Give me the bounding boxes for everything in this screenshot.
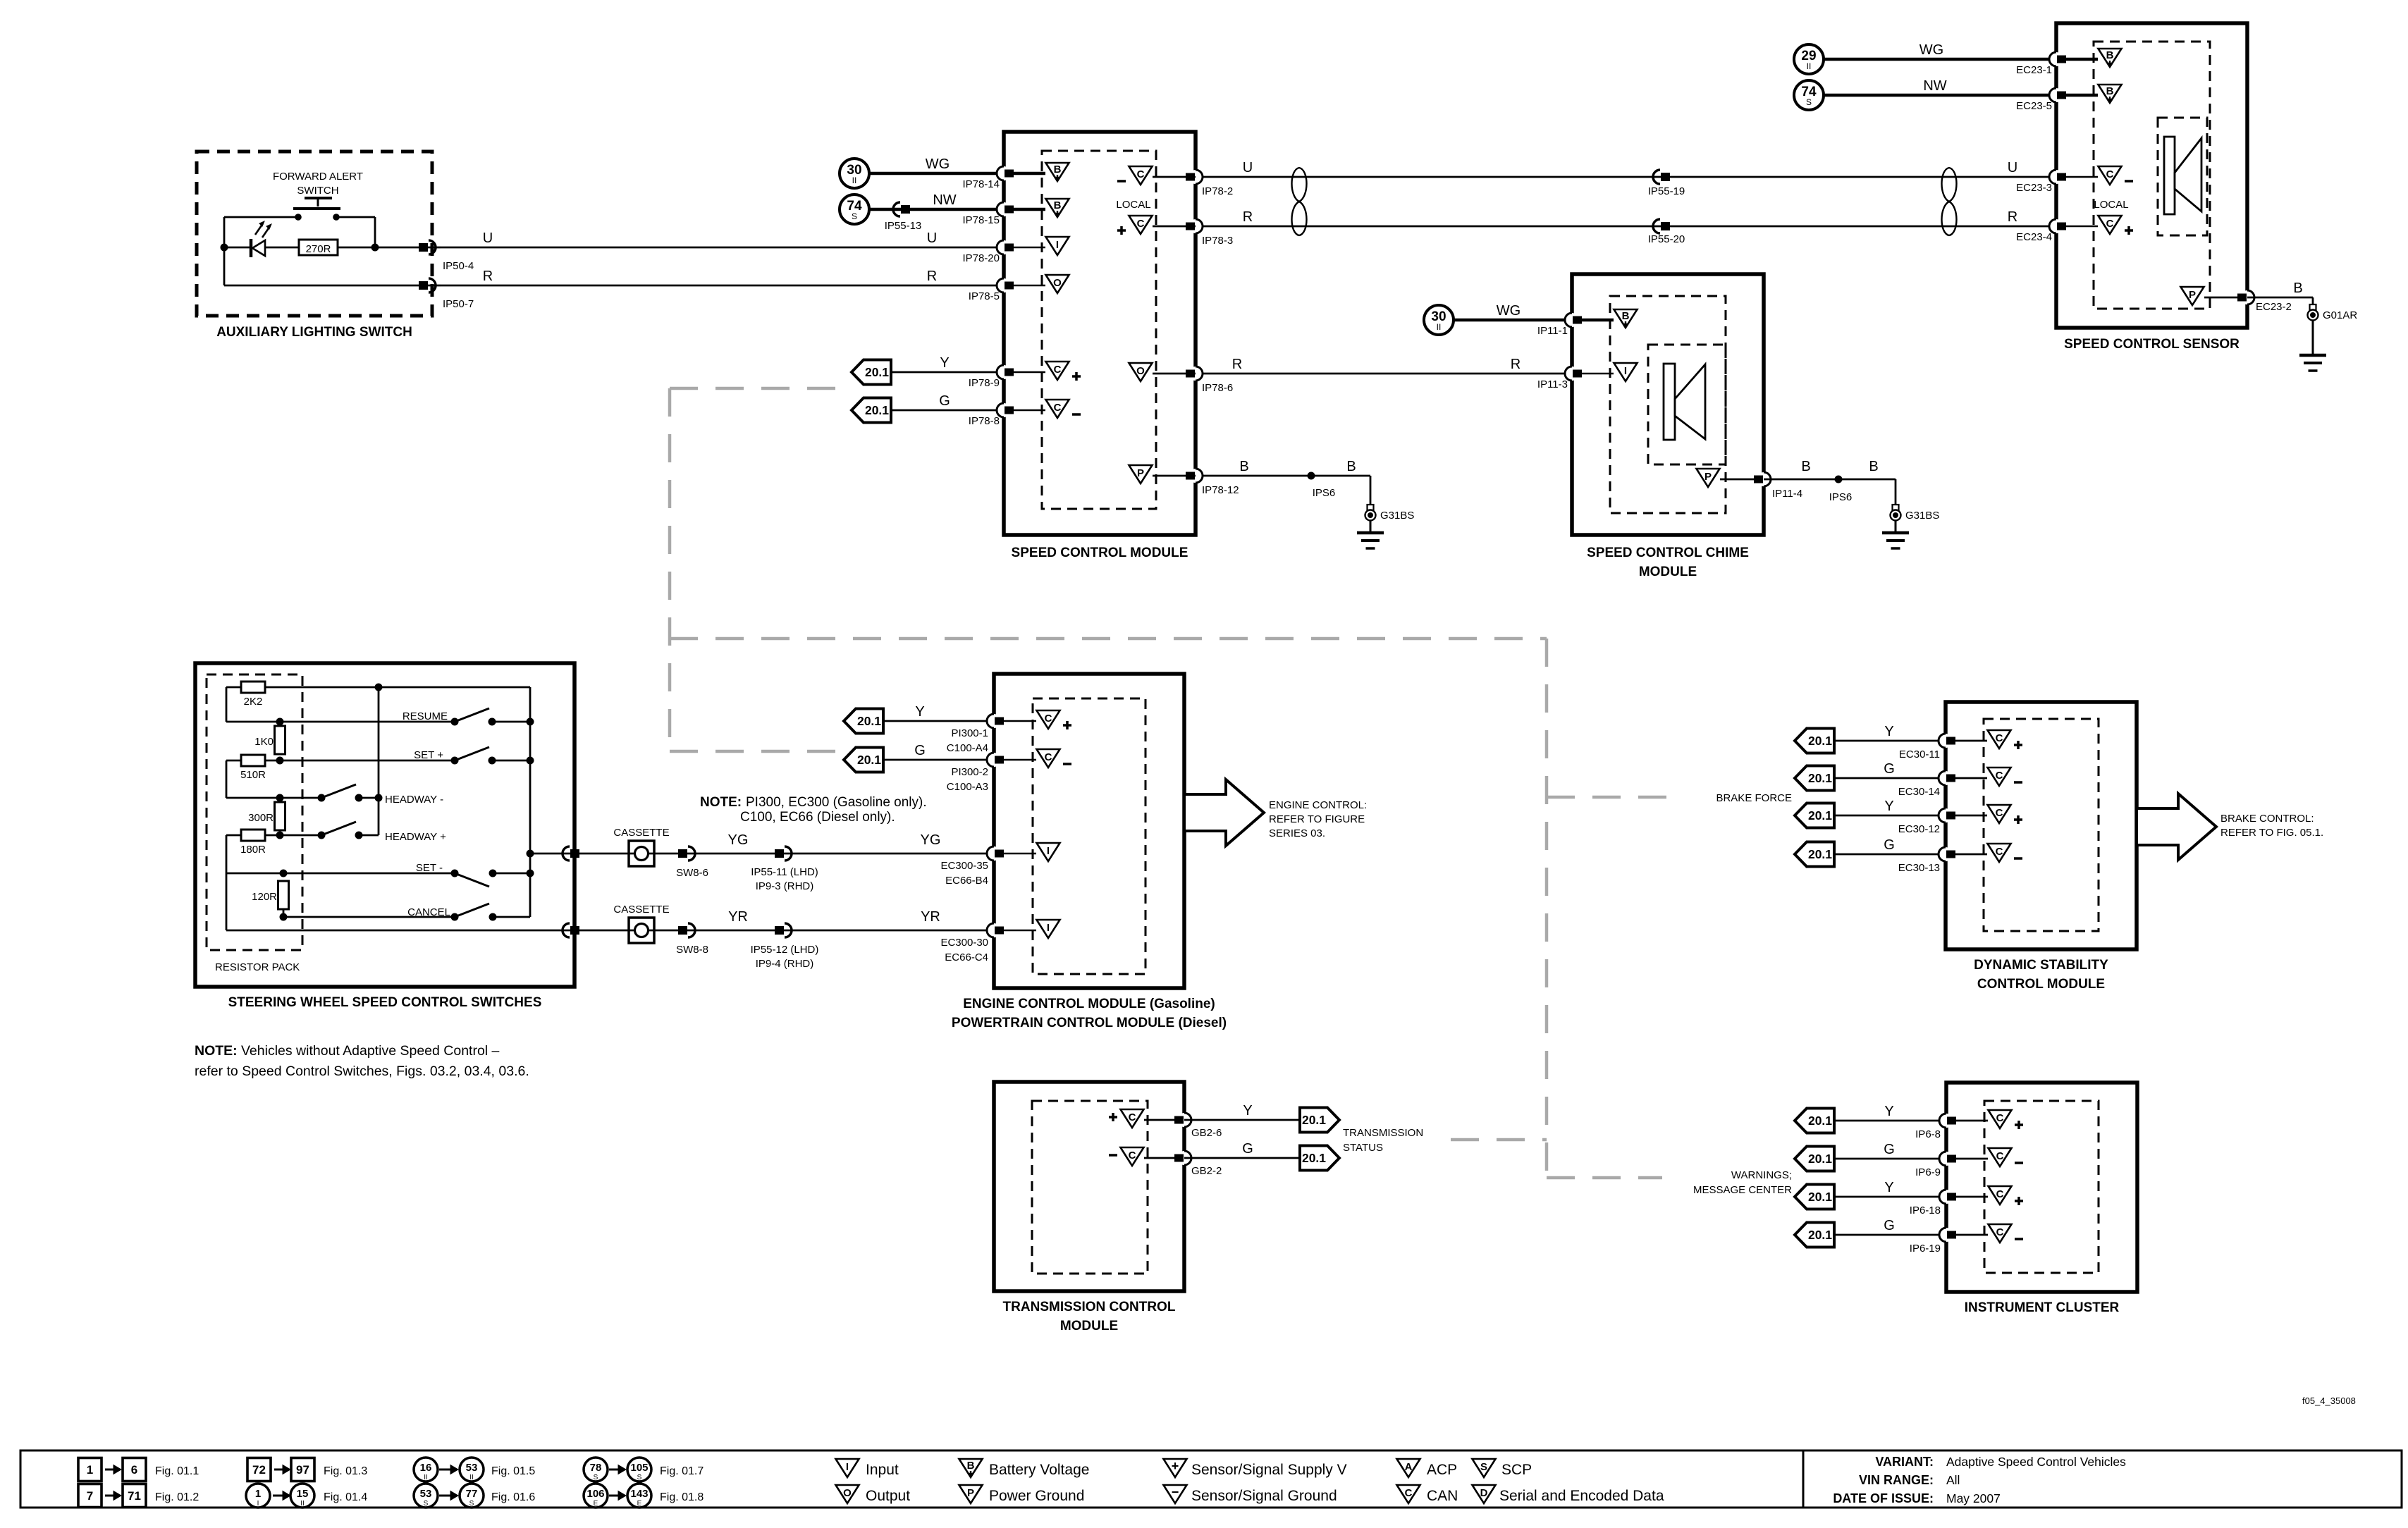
svg-text:C: C <box>2106 168 2114 180</box>
svg-text:78: 78 <box>590 1462 602 1474</box>
svg-text:NW: NW <box>1923 78 1946 94</box>
svg-text:I: I <box>1624 365 1627 377</box>
svg-text:1: 1 <box>255 1488 261 1500</box>
svg-text:IP55-13: IP55-13 <box>885 220 922 232</box>
svg-text:refer to Speed Control Switche: refer to Speed Control Switches, Figs. 0… <box>195 1064 529 1079</box>
svg-text:Y: Y <box>1884 724 1893 739</box>
svg-text:I: I <box>846 1461 849 1473</box>
svg-text:G: G <box>1884 1218 1895 1233</box>
svg-text:EC300-35: EC300-35 <box>940 860 988 872</box>
svg-text:EC23-2: EC23-2 <box>2256 301 2292 313</box>
svg-text:C100, EC66 (Diesel only).: C100, EC66 (Diesel only). <box>740 810 895 825</box>
svg-text:VIN RANGE:: VIN RANGE: <box>1859 1473 1934 1487</box>
svg-text:SCP: SCP <box>1501 1462 1532 1478</box>
svg-text:C: C <box>1996 1188 2004 1200</box>
svg-text:HEADWAY +: HEADWAY + <box>385 831 446 843</box>
svg-text:SET -: SET - <box>416 862 443 874</box>
svg-text:C: C <box>1137 218 1145 230</box>
svg-text:S: S <box>424 1500 429 1508</box>
svg-text:G: G <box>1242 1141 1253 1157</box>
svg-text:RESUME: RESUME <box>403 710 448 722</box>
svg-text:EC66-B4: EC66-B4 <box>945 875 988 887</box>
svg-text:G31BS: G31BS <box>1380 510 1414 522</box>
svg-text:IP6-9: IP6-9 <box>1915 1166 1941 1178</box>
svg-text:53: 53 <box>420 1488 432 1500</box>
svg-text:SW8-8: SW8-8 <box>676 944 708 956</box>
svg-text:May 2007: May 2007 <box>1946 1491 2001 1505</box>
svg-text:C: C <box>1137 168 1145 180</box>
svg-text:POWERTRAIN CONTROL MODULE (Die: POWERTRAIN CONTROL MODULE (Diesel) <box>952 1016 1227 1030</box>
svg-text:YR: YR <box>921 909 940 925</box>
svg-text:Input: Input <box>866 1462 899 1478</box>
svg-text:S: S <box>852 211 857 221</box>
svg-text:SW8-6: SW8-6 <box>676 867 708 879</box>
svg-text:Sensor/Signal Ground: Sensor/Signal Ground <box>1191 1488 1337 1504</box>
svg-text:20.1: 20.1 <box>857 753 881 767</box>
svg-text:O: O <box>1053 277 1062 289</box>
svg-text:IP78-5: IP78-5 <box>969 290 1000 302</box>
svg-text:IP50-4: IP50-4 <box>443 260 474 272</box>
svg-text:P: P <box>1137 467 1144 479</box>
svg-text:R: R <box>1511 357 1521 372</box>
svg-text:EC23-4: EC23-4 <box>2016 231 2052 243</box>
svg-text:20.1: 20.1 <box>1808 1190 1832 1204</box>
svg-text:2K2: 2K2 <box>244 696 263 708</box>
svg-text:LOCAL: LOCAL <box>2094 199 2128 211</box>
svg-text:R: R <box>1243 209 1253 225</box>
svg-text:IP6-8: IP6-8 <box>1915 1128 1941 1140</box>
svg-text:U: U <box>2008 160 2017 175</box>
svg-text:B: B <box>1054 164 1062 175</box>
svg-text:MODULE: MODULE <box>1639 565 1697 579</box>
svg-text:P: P <box>1704 471 1712 483</box>
svg-text:C: C <box>1996 1226 2004 1238</box>
svg-text:ENGINE CONTROL MODULE (Gasolin: ENGINE CONTROL MODULE (Gasoline) <box>963 997 1215 1011</box>
svg-text:B: B <box>967 1460 975 1472</box>
svg-text:120R: 120R <box>252 891 277 903</box>
svg-text:Y: Y <box>1243 1103 1252 1119</box>
svg-text:IPS6: IPS6 <box>1829 491 1853 503</box>
svg-text:B: B <box>1869 459 1878 474</box>
svg-text:EC23-5: EC23-5 <box>2016 100 2052 112</box>
svg-text:IP11-4: IP11-4 <box>1772 488 1802 500</box>
svg-text:IP55-19: IP55-19 <box>1648 185 1685 197</box>
svg-text:105: 105 <box>630 1462 648 1474</box>
svg-text:SPEED CONTROL CHIME: SPEED CONTROL CHIME <box>1587 546 1749 560</box>
svg-text:IP78-8: IP78-8 <box>969 415 1000 427</box>
svg-text:IP78-6: IP78-6 <box>1202 382 1233 394</box>
svg-text:IP11-3: IP11-3 <box>1537 378 1568 390</box>
svg-text:Y: Y <box>915 704 924 720</box>
svg-text:REFER TO FIG. 05.1.: REFER TO FIG. 05.1. <box>2220 827 2323 839</box>
svg-text:Y: Y <box>1884 799 1893 814</box>
svg-text:97: 97 <box>296 1463 309 1477</box>
svg-text:Sensor/Signal Supply V: Sensor/Signal Supply V <box>1191 1462 1347 1478</box>
svg-text:B: B <box>2106 85 2114 97</box>
svg-text:U: U <box>483 230 493 246</box>
svg-text:SET +: SET + <box>414 749 443 761</box>
svg-text:7: 7 <box>87 1489 93 1503</box>
svg-text:O: O <box>843 1487 852 1499</box>
svg-text:WG: WG <box>1497 303 1521 319</box>
svg-text:Fig. 01.7: Fig. 01.7 <box>660 1465 704 1477</box>
svg-text:U: U <box>1243 160 1253 175</box>
svg-text:STATUS: STATUS <box>1343 1142 1383 1154</box>
svg-text:U: U <box>927 230 937 246</box>
svg-text:C: C <box>1996 846 2003 858</box>
svg-text:S: S <box>1480 1461 1487 1473</box>
svg-text:IP55-20: IP55-20 <box>1648 233 1685 245</box>
svg-text:G: G <box>914 743 926 758</box>
svg-text:WG: WG <box>1919 42 1943 58</box>
svg-text:C: C <box>1129 1150 1136 1162</box>
svg-text:EC23-1: EC23-1 <box>2016 64 2052 76</box>
svg-text:C: C <box>1045 751 1052 763</box>
svg-text:20.1: 20.1 <box>865 403 889 417</box>
svg-text:VARIANT:: VARIANT: <box>1875 1455 1934 1469</box>
svg-text:C: C <box>1054 402 1062 414</box>
svg-text:G01AR: G01AR <box>2323 309 2357 321</box>
svg-text:SERIES 03.: SERIES 03. <box>1269 827 1325 839</box>
svg-text:C: C <box>1054 364 1062 376</box>
svg-text:Fig. 01.1: Fig. 01.1 <box>155 1465 199 1477</box>
svg-text:P: P <box>967 1487 974 1499</box>
svg-text:Fig. 01.5: Fig. 01.5 <box>491 1465 535 1477</box>
svg-text:P: P <box>2189 289 2196 301</box>
svg-text:20.1: 20.1 <box>1808 771 1832 785</box>
svg-text:NW: NW <box>933 192 956 208</box>
svg-text:EC300-30: EC300-30 <box>940 937 988 949</box>
svg-text:E: E <box>637 1500 642 1508</box>
svg-text:C: C <box>1996 1150 2004 1162</box>
svg-text:IP78-3: IP78-3 <box>1202 235 1233 247</box>
svg-text:1: 1 <box>87 1463 93 1477</box>
svg-text:WARNINGS;: WARNINGS; <box>1731 1169 1792 1181</box>
svg-text:CANCEL: CANCEL <box>407 906 450 918</box>
svg-text:NOTE:: NOTE: <box>195 1043 238 1059</box>
svg-text:IP11-1: IP11-1 <box>1537 325 1568 337</box>
svg-text:Y: Y <box>1884 1104 1893 1119</box>
svg-text:Output: Output <box>866 1488 910 1504</box>
svg-text:20.1: 20.1 <box>1302 1113 1326 1127</box>
svg-text:SPEED CONTROL MODULE: SPEED CONTROL MODULE <box>1012 546 1188 560</box>
svg-text:YR: YR <box>728 909 748 925</box>
svg-text:Adaptive Speed Control Vehicle: Adaptive Speed Control Vehicles <box>1946 1455 2126 1469</box>
svg-text:B: B <box>1239 459 1248 474</box>
svg-text:PI300-1: PI300-1 <box>951 727 988 739</box>
svg-text:A: A <box>1405 1461 1413 1473</box>
svg-text:IP9-4 (RHD): IP9-4 (RHD) <box>756 958 814 970</box>
svg-text:G31BS: G31BS <box>1905 510 1939 522</box>
svg-text:II: II <box>852 175 857 185</box>
svg-text:EC30-13: EC30-13 <box>1898 862 1940 874</box>
svg-text:G: G <box>939 393 950 409</box>
svg-text:MESSAGE CENTER: MESSAGE CENTER <box>1693 1184 1792 1196</box>
svg-text:STEERING WHEEL SPEED CONTROL S: STEERING WHEEL SPEED CONTROL SWITCHES <box>228 995 542 1010</box>
svg-text:B: B <box>1054 199 1062 211</box>
svg-text:E: E <box>594 1500 598 1508</box>
svg-text:B: B <box>2293 281 2302 296</box>
svg-text:143: 143 <box>630 1488 648 1500</box>
svg-text:PI300-2: PI300-2 <box>951 766 988 778</box>
svg-text:IP78-14: IP78-14 <box>962 178 1000 190</box>
svg-text:IP55-11 (LHD): IP55-11 (LHD) <box>751 866 818 878</box>
svg-text:106: 106 <box>586 1488 604 1500</box>
svg-text:MODULE: MODULE <box>1060 1319 1118 1333</box>
svg-text:IP78-20: IP78-20 <box>962 252 1000 264</box>
svg-text:−: − <box>1172 1485 1179 1499</box>
svg-text:REFER TO FIGURE: REFER TO FIGURE <box>1269 813 1365 825</box>
svg-text:DYNAMIC STABILITY: DYNAMIC STABILITY <box>1974 958 2108 973</box>
svg-text:IPS6: IPS6 <box>1313 487 1336 499</box>
svg-text:Power Ground: Power Ground <box>989 1488 1084 1504</box>
svg-text:Vehicles without Adaptive Spee: Vehicles without Adaptive Speed Control … <box>241 1043 500 1059</box>
svg-text:Y: Y <box>1884 1180 1893 1195</box>
svg-text:ENGINE CONTROL:: ENGINE CONTROL: <box>1269 799 1367 811</box>
svg-text:PI300, EC300 (Gasoline only).: PI300, EC300 (Gasoline only). <box>746 795 927 810</box>
svg-text:S: S <box>637 1474 642 1481</box>
svg-text:C: C <box>2106 218 2114 230</box>
svg-text:IP55-12 (LHD): IP55-12 (LHD) <box>751 944 819 956</box>
svg-text:IP78-15: IP78-15 <box>962 214 1000 226</box>
svg-text:EC23-3: EC23-3 <box>2016 182 2052 194</box>
svg-text:SPEED CONTROL SENSOR: SPEED CONTROL SENSOR <box>2064 337 2240 352</box>
svg-text:IP9-3 (RHD): IP9-3 (RHD) <box>756 880 814 892</box>
svg-text:72: 72 <box>252 1463 266 1477</box>
svg-text:C: C <box>1996 1112 2004 1124</box>
svg-text:IP78-2: IP78-2 <box>1202 185 1233 197</box>
svg-text:C: C <box>1996 770 2003 782</box>
svg-text:AUXILIARY LIGHTING SWITCH: AUXILIARY LIGHTING SWITCH <box>216 325 412 340</box>
svg-text:O: O <box>1136 365 1145 377</box>
svg-text:II: II <box>300 1500 305 1508</box>
svg-text:71: 71 <box>128 1489 141 1503</box>
svg-text:BRAKE FORCE: BRAKE FORCE <box>1716 792 1792 804</box>
svg-text:TRANSMISSION: TRANSMISSION <box>1343 1127 1423 1139</box>
svg-text:HEADWAY -: HEADWAY - <box>385 794 443 806</box>
svg-text:16: 16 <box>420 1462 432 1474</box>
svg-text:77: 77 <box>466 1488 478 1500</box>
svg-text:1K0: 1K0 <box>254 736 274 748</box>
svg-text:YG: YG <box>728 832 749 848</box>
svg-text:EC30-14: EC30-14 <box>1898 786 1940 798</box>
svg-text:S: S <box>1806 97 1812 107</box>
svg-text:53: 53 <box>466 1462 478 1474</box>
svg-text:CAN: CAN <box>1427 1488 1458 1504</box>
svg-text:II: II <box>1437 322 1442 332</box>
svg-text:R: R <box>2008 209 2017 225</box>
svg-text:TRANSMISSION CONTROL: TRANSMISSION CONTROL <box>1003 1300 1176 1314</box>
svg-text:II: II <box>424 1474 428 1481</box>
svg-text:FORWARD ALERT: FORWARD ALERT <box>273 171 363 183</box>
svg-text:ACP: ACP <box>1427 1462 1457 1478</box>
svg-text:DATE OF ISSUE:: DATE OF ISSUE: <box>1833 1491 1934 1505</box>
svg-text:Battery Voltage: Battery Voltage <box>989 1462 1089 1478</box>
svg-text:All: All <box>1946 1473 1960 1487</box>
svg-text:S: S <box>594 1474 598 1481</box>
svg-text:20.1: 20.1 <box>1808 847 1832 861</box>
svg-text:C: C <box>1996 732 2003 744</box>
svg-text:IP50-7: IP50-7 <box>443 298 474 310</box>
svg-text:20.1: 20.1 <box>857 714 881 728</box>
svg-text:Fig. 01.2: Fig. 01.2 <box>155 1491 199 1503</box>
svg-text:GB2-6: GB2-6 <box>1191 1127 1222 1139</box>
svg-text:C: C <box>1045 713 1052 725</box>
svg-text:+: + <box>1172 1459 1179 1473</box>
svg-text:6: 6 <box>131 1463 137 1477</box>
svg-text:I: I <box>1047 922 1050 934</box>
svg-text:I: I <box>1047 845 1050 857</box>
svg-text:D: D <box>1480 1487 1488 1499</box>
svg-text:20.1: 20.1 <box>1808 1114 1832 1128</box>
svg-text:EC30-12: EC30-12 <box>1898 823 1940 835</box>
svg-text:SWITCH: SWITCH <box>297 185 338 197</box>
svg-text:B: B <box>1622 310 1630 322</box>
svg-text:G: G <box>1884 1142 1895 1157</box>
svg-text:EC66-C4: EC66-C4 <box>945 951 988 963</box>
svg-text:180R: 180R <box>240 844 266 856</box>
svg-text:B: B <box>1346 459 1356 474</box>
svg-text:G: G <box>1884 837 1895 853</box>
svg-text:INSTRUMENT CLUSTER: INSTRUMENT CLUSTER <box>1965 1300 2120 1315</box>
svg-text:C: C <box>1129 1111 1136 1123</box>
svg-text:CASSETTE: CASSETTE <box>613 827 669 839</box>
svg-text:20.1: 20.1 <box>1808 1228 1832 1242</box>
svg-text:Y: Y <box>940 355 949 371</box>
svg-text:f05_4_35008: f05_4_35008 <box>2302 1395 2356 1406</box>
svg-text:YG: YG <box>921 832 941 848</box>
svg-text:WG: WG <box>926 156 950 172</box>
svg-text:LOCAL: LOCAL <box>1116 199 1150 211</box>
svg-text:G: G <box>1884 761 1895 777</box>
svg-text:GB2-2: GB2-2 <box>1191 1165 1222 1177</box>
svg-text:IP78-12: IP78-12 <box>1202 484 1239 496</box>
svg-text:II: II <box>469 1474 474 1481</box>
svg-text:20.1: 20.1 <box>1808 1152 1832 1166</box>
svg-text:300R: 300R <box>248 812 274 824</box>
svg-text:510R: 510R <box>240 769 266 781</box>
svg-text:R: R <box>927 269 937 284</box>
svg-text:R: R <box>483 269 493 284</box>
svg-text:B: B <box>2106 49 2114 61</box>
svg-text:Fig. 01.4: Fig. 01.4 <box>324 1491 367 1503</box>
svg-text:II: II <box>1807 61 1812 71</box>
svg-text:NOTE:: NOTE: <box>700 795 742 810</box>
svg-text:CASSETTE: CASSETTE <box>613 904 669 916</box>
svg-text:20.1: 20.1 <box>1808 808 1832 822</box>
svg-text:20.1: 20.1 <box>1808 734 1832 748</box>
svg-text:C100-A4: C100-A4 <box>947 742 988 754</box>
svg-text:270R: 270R <box>306 243 331 255</box>
svg-text:EC30-11: EC30-11 <box>1899 748 1940 760</box>
svg-text:15: 15 <box>297 1488 309 1500</box>
svg-text:IP78-9: IP78-9 <box>969 377 1000 389</box>
svg-text:S: S <box>469 1500 474 1508</box>
svg-text:20.1: 20.1 <box>1302 1151 1326 1165</box>
svg-text:CONTROL MODULE: CONTROL MODULE <box>1977 977 2105 992</box>
svg-text:RESISTOR PACK: RESISTOR PACK <box>215 961 300 973</box>
svg-text:BRAKE CONTROL:: BRAKE CONTROL: <box>2220 813 2314 825</box>
svg-text:IP6-18: IP6-18 <box>1910 1204 1941 1216</box>
svg-text:R: R <box>1232 357 1242 372</box>
svg-text:B: B <box>1801 459 1810 474</box>
svg-text:Fig. 01.6: Fig. 01.6 <box>491 1491 535 1503</box>
svg-text:Fig. 01.3: Fig. 01.3 <box>324 1465 367 1477</box>
svg-text:I: I <box>257 1500 259 1508</box>
svg-text:IP6-19: IP6-19 <box>1910 1243 1941 1255</box>
svg-text:C: C <box>1405 1487 1413 1499</box>
svg-text:Serial and Encoded Data: Serial and Encoded Data <box>1499 1488 1664 1504</box>
svg-text:I: I <box>1056 239 1059 251</box>
svg-text:Fig. 01.8: Fig. 01.8 <box>660 1491 704 1503</box>
svg-text:20.1: 20.1 <box>865 365 889 379</box>
svg-text:C100-A3: C100-A3 <box>947 781 988 793</box>
svg-text:C: C <box>1996 807 2003 819</box>
